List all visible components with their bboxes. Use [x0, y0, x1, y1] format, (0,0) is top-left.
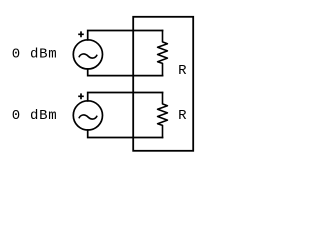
svg-text:R: R [178, 108, 187, 124]
plus polarity mark V1 [78, 31, 84, 37]
wire: V2 top terminal to R2 top [88, 93, 163, 101]
enclosure box [133, 17, 193, 151]
wire: V1 top terminal to R1 top [88, 31, 163, 40]
AC source V2 [73, 101, 102, 130]
wire: V2 bottom terminal to R2 bottom [88, 130, 163, 138]
svg-text:0 dBm: 0 dBm [12, 108, 58, 124]
svg-text:R: R [178, 63, 187, 79]
resistor R1 [158, 31, 168, 76]
plus polarity mark V2 [78, 93, 84, 99]
resistor R2 [158, 93, 168, 138]
sine wave V2 [79, 115, 97, 119]
wire: V1 bottom terminal to R1 bottom [88, 69, 163, 76]
svg-text:0 dBm: 0 dBm [12, 47, 58, 63]
AC source V1 [73, 40, 102, 69]
sine wave V1 [79, 54, 97, 58]
